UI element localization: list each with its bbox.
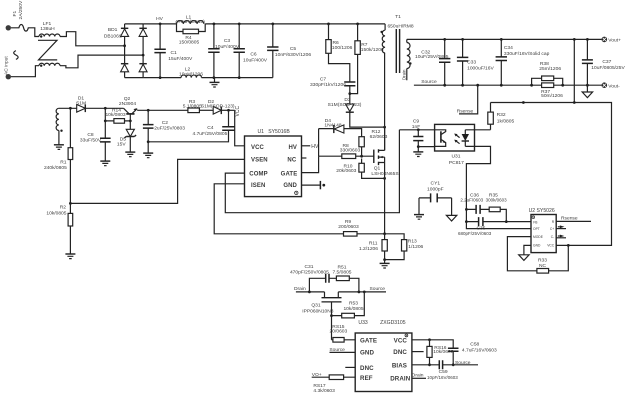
svg-text:2uF/25V/0803: 2uF/25V/0803 [154, 125, 185, 131]
svg-text:C1: C1 [171, 50, 178, 56]
svg-text:Vout-: Vout- [608, 83, 620, 89]
svg-text:C7: C7 [320, 76, 327, 82]
svg-text:COMP: COMP [249, 172, 267, 178]
svg-text:2A/250V: 2A/250V [18, 0, 24, 20]
svg-text:LSH04N65S: LSH04N65S [371, 171, 399, 177]
svg-text:4.7uF/25V/0805: 4.7uF/25V/0805 [193, 131, 228, 137]
svg-text:OPT: OPT [533, 227, 540, 231]
svg-text:NC: NC [539, 263, 547, 269]
svg-text:S1M(SOD-123): S1M(SOD-123) [201, 104, 235, 110]
svg-text:Drain: Drain [294, 286, 306, 292]
svg-text:S1M: S1M [76, 101, 86, 107]
svg-text:PC817: PC817 [449, 160, 464, 166]
svg-text:R2: R2 [60, 205, 67, 211]
svg-text:NC: NC [287, 158, 296, 164]
svg-text:Q31: Q31 [311, 303, 321, 309]
svg-text:Source: Source [370, 286, 386, 292]
svg-text:GATE: GATE [360, 337, 377, 344]
svg-text:Rsense: Rsense [457, 108, 474, 114]
svg-text:C37: C37 [602, 59, 611, 65]
svg-text:R33: R33 [538, 258, 547, 264]
svg-text:GND: GND [360, 350, 374, 357]
svg-text:Drain: Drain [412, 372, 424, 378]
svg-text:R32: R32 [497, 112, 506, 118]
svg-text:DNC: DNC [360, 365, 374, 372]
svg-text:150/0805: 150/0805 [179, 40, 200, 46]
svg-text:10uF/400V: 10uF/400V [243, 57, 268, 63]
svg-text:1.2/1206: 1.2/1206 [359, 246, 378, 252]
svg-text:C5: C5 [290, 46, 297, 52]
svg-text:Q2: Q2 [124, 96, 131, 102]
svg-text:10k/0803: 10k/0803 [105, 112, 125, 118]
svg-text:10k/0805: 10k/0805 [343, 306, 363, 312]
svg-text:C34: C34 [504, 45, 513, 51]
svg-text:10pF/16V/0603: 10pF/16V/0603 [427, 375, 458, 380]
svg-text:330uF/16V/Solid cap: 330uF/16V/Solid cap [504, 51, 550, 57]
svg-text:U1 SY5016B: U1 SY5016B [258, 129, 291, 135]
svg-text:U31: U31 [452, 154, 461, 160]
svg-text:Vout+: Vout+ [608, 38, 621, 44]
svg-text:25m/1206: 25m/1206 [539, 66, 561, 72]
svg-text:10nF/630V/1206: 10nF/630V/1206 [275, 52, 311, 58]
svg-text:MODE: MODE [533, 235, 544, 239]
svg-text:BIAS: BIAS [392, 362, 407, 369]
svg-text:T1: T1 [395, 14, 401, 20]
svg-text:R1: R1 [60, 160, 67, 166]
svg-text:10uF/0805/25V: 10uF/0805/25V [591, 65, 625, 71]
svg-text:2N3904: 2N3904 [119, 101, 136, 107]
svg-text:Source: Source [421, 79, 437, 85]
svg-text:1/1206: 1/1206 [408, 244, 423, 250]
svg-text:100/1206: 100/1206 [332, 45, 353, 51]
svg-text:650uH/RM8: 650uH/RM8 [387, 23, 413, 29]
svg-text:R38: R38 [540, 61, 549, 67]
svg-text:10k/0603: 10k/0603 [433, 349, 453, 355]
svg-text:20/0603: 20/0603 [330, 329, 348, 335]
svg-text:10uF/25V/0805: 10uF/25V/0805 [415, 54, 449, 60]
svg-text:33uF/50V: 33uF/50V [80, 138, 102, 144]
svg-text:680pF/25V/0603: 680pF/25V/0603 [458, 231, 492, 236]
svg-text:1nF: 1nF [412, 124, 420, 130]
svg-text:U33: U33 [358, 320, 368, 326]
svg-text:HV: HV [311, 144, 319, 150]
svg-text:C3: C3 [224, 38, 231, 44]
svg-text:200/0603: 200/0603 [338, 224, 359, 230]
svg-text:470pF/250V/0805: 470pF/250V/0805 [290, 269, 329, 275]
svg-text:C31: C31 [305, 264, 314, 270]
svg-text:VCC: VCC [547, 244, 555, 248]
svg-text:330pF/1kV/1206: 330pF/1kV/1206 [310, 82, 346, 88]
svg-text:R11: R11 [369, 240, 378, 246]
svg-text:C9: C9 [413, 119, 420, 125]
svg-text:4.3k/0603: 4.3k/0603 [313, 388, 335, 394]
svg-text:Source: Source [455, 360, 471, 366]
svg-text:ISEN: ISEN [251, 183, 265, 189]
svg-text:DRAIN: DRAIN [390, 376, 411, 383]
svg-text:DNC: DNC [393, 349, 407, 356]
svg-text:ZXGD3105: ZXGD3105 [380, 320, 406, 326]
svg-text:C2: C2 [162, 120, 169, 126]
svg-text:Drain: Drain [401, 69, 406, 80]
svg-text:C33: C33 [467, 60, 476, 66]
svg-text:HV: HV [288, 145, 297, 151]
svg-text:15V: 15V [117, 142, 126, 148]
svg-text:7.5/0805: 7.5/0805 [332, 270, 351, 276]
svg-text:LF1: LF1 [43, 21, 52, 27]
svg-text:IPP060N10N3: IPP060N10N3 [302, 308, 334, 314]
svg-text:15uF/400V: 15uF/400V [168, 56, 193, 62]
svg-text:10k/0805: 10k/0805 [46, 210, 66, 216]
svg-text:AC input: AC input [4, 56, 10, 75]
svg-text:S1M(SOD-123): S1M(SOD-123) [328, 102, 362, 108]
svg-text:F1: F1 [12, 11, 18, 17]
svg-text:GATE: GATE [281, 172, 298, 178]
svg-text:20k/0603: 20k/0603 [336, 168, 356, 174]
svg-text:300k/0603: 300k/0603 [486, 198, 508, 203]
svg-text:C4: C4 [207, 125, 214, 131]
svg-text:VCC: VCC [394, 337, 408, 344]
svg-text:1000pF: 1000pF [427, 187, 444, 193]
svg-text:DB106S: DB106S [104, 34, 123, 40]
svg-text:10uH/1206: 10uH/1206 [179, 71, 203, 77]
svg-text:2.2uF/0603: 2.2uF/0603 [460, 198, 483, 203]
svg-text:U2 SY5026: U2 SY5026 [529, 208, 555, 214]
svg-text:C-: C- [551, 235, 554, 239]
svg-text:138uH: 138uH [40, 26, 55, 32]
svg-text:Source: Source [329, 347, 345, 353]
svg-text:VCC: VCC [251, 145, 265, 151]
svg-text:C58: C58 [470, 341, 479, 347]
svg-text:50m/1206: 50m/1206 [541, 93, 563, 99]
svg-text:VCC: VCC [235, 106, 241, 117]
svg-text:Q1: Q1 [374, 166, 381, 172]
svg-text:1N4148: 1N4148 [324, 123, 341, 129]
svg-text:HV: HV [156, 16, 164, 22]
svg-text:REF: REF [360, 375, 373, 382]
svg-text:R13: R13 [408, 239, 417, 245]
svg-text:R53: R53 [349, 301, 358, 307]
svg-text:BD1: BD1 [108, 27, 118, 33]
svg-text:C8: C8 [87, 132, 94, 138]
svg-text:C6: C6 [250, 52, 257, 58]
svg-text:C+: C+ [550, 227, 554, 231]
svg-text:GND: GND [533, 244, 541, 248]
svg-text:4.7uF/16V/0603: 4.7uF/16V/0603 [462, 348, 497, 354]
svg-text:VSEN: VSEN [251, 158, 268, 164]
svg-text:VO+: VO+ [312, 372, 322, 378]
svg-text:330/0603: 330/0603 [340, 148, 361, 154]
svg-text:5.1/0805: 5.1/0805 [183, 104, 202, 110]
svg-text:Rsense: Rsense [561, 216, 578, 222]
svg-text:1000uF/16V: 1000uF/16V [467, 66, 494, 72]
svg-text:240k/0805: 240k/0805 [44, 165, 67, 171]
svg-text:D5: D5 [120, 136, 127, 142]
svg-text:1k/0805: 1k/0805 [497, 119, 515, 125]
svg-text:GND: GND [283, 183, 297, 189]
svg-text:CY1: CY1 [431, 181, 441, 187]
svg-text:150k/1206: 150k/1206 [361, 47, 384, 53]
svg-text:470uH(EE13): 470uH(EE13) [175, 19, 205, 25]
